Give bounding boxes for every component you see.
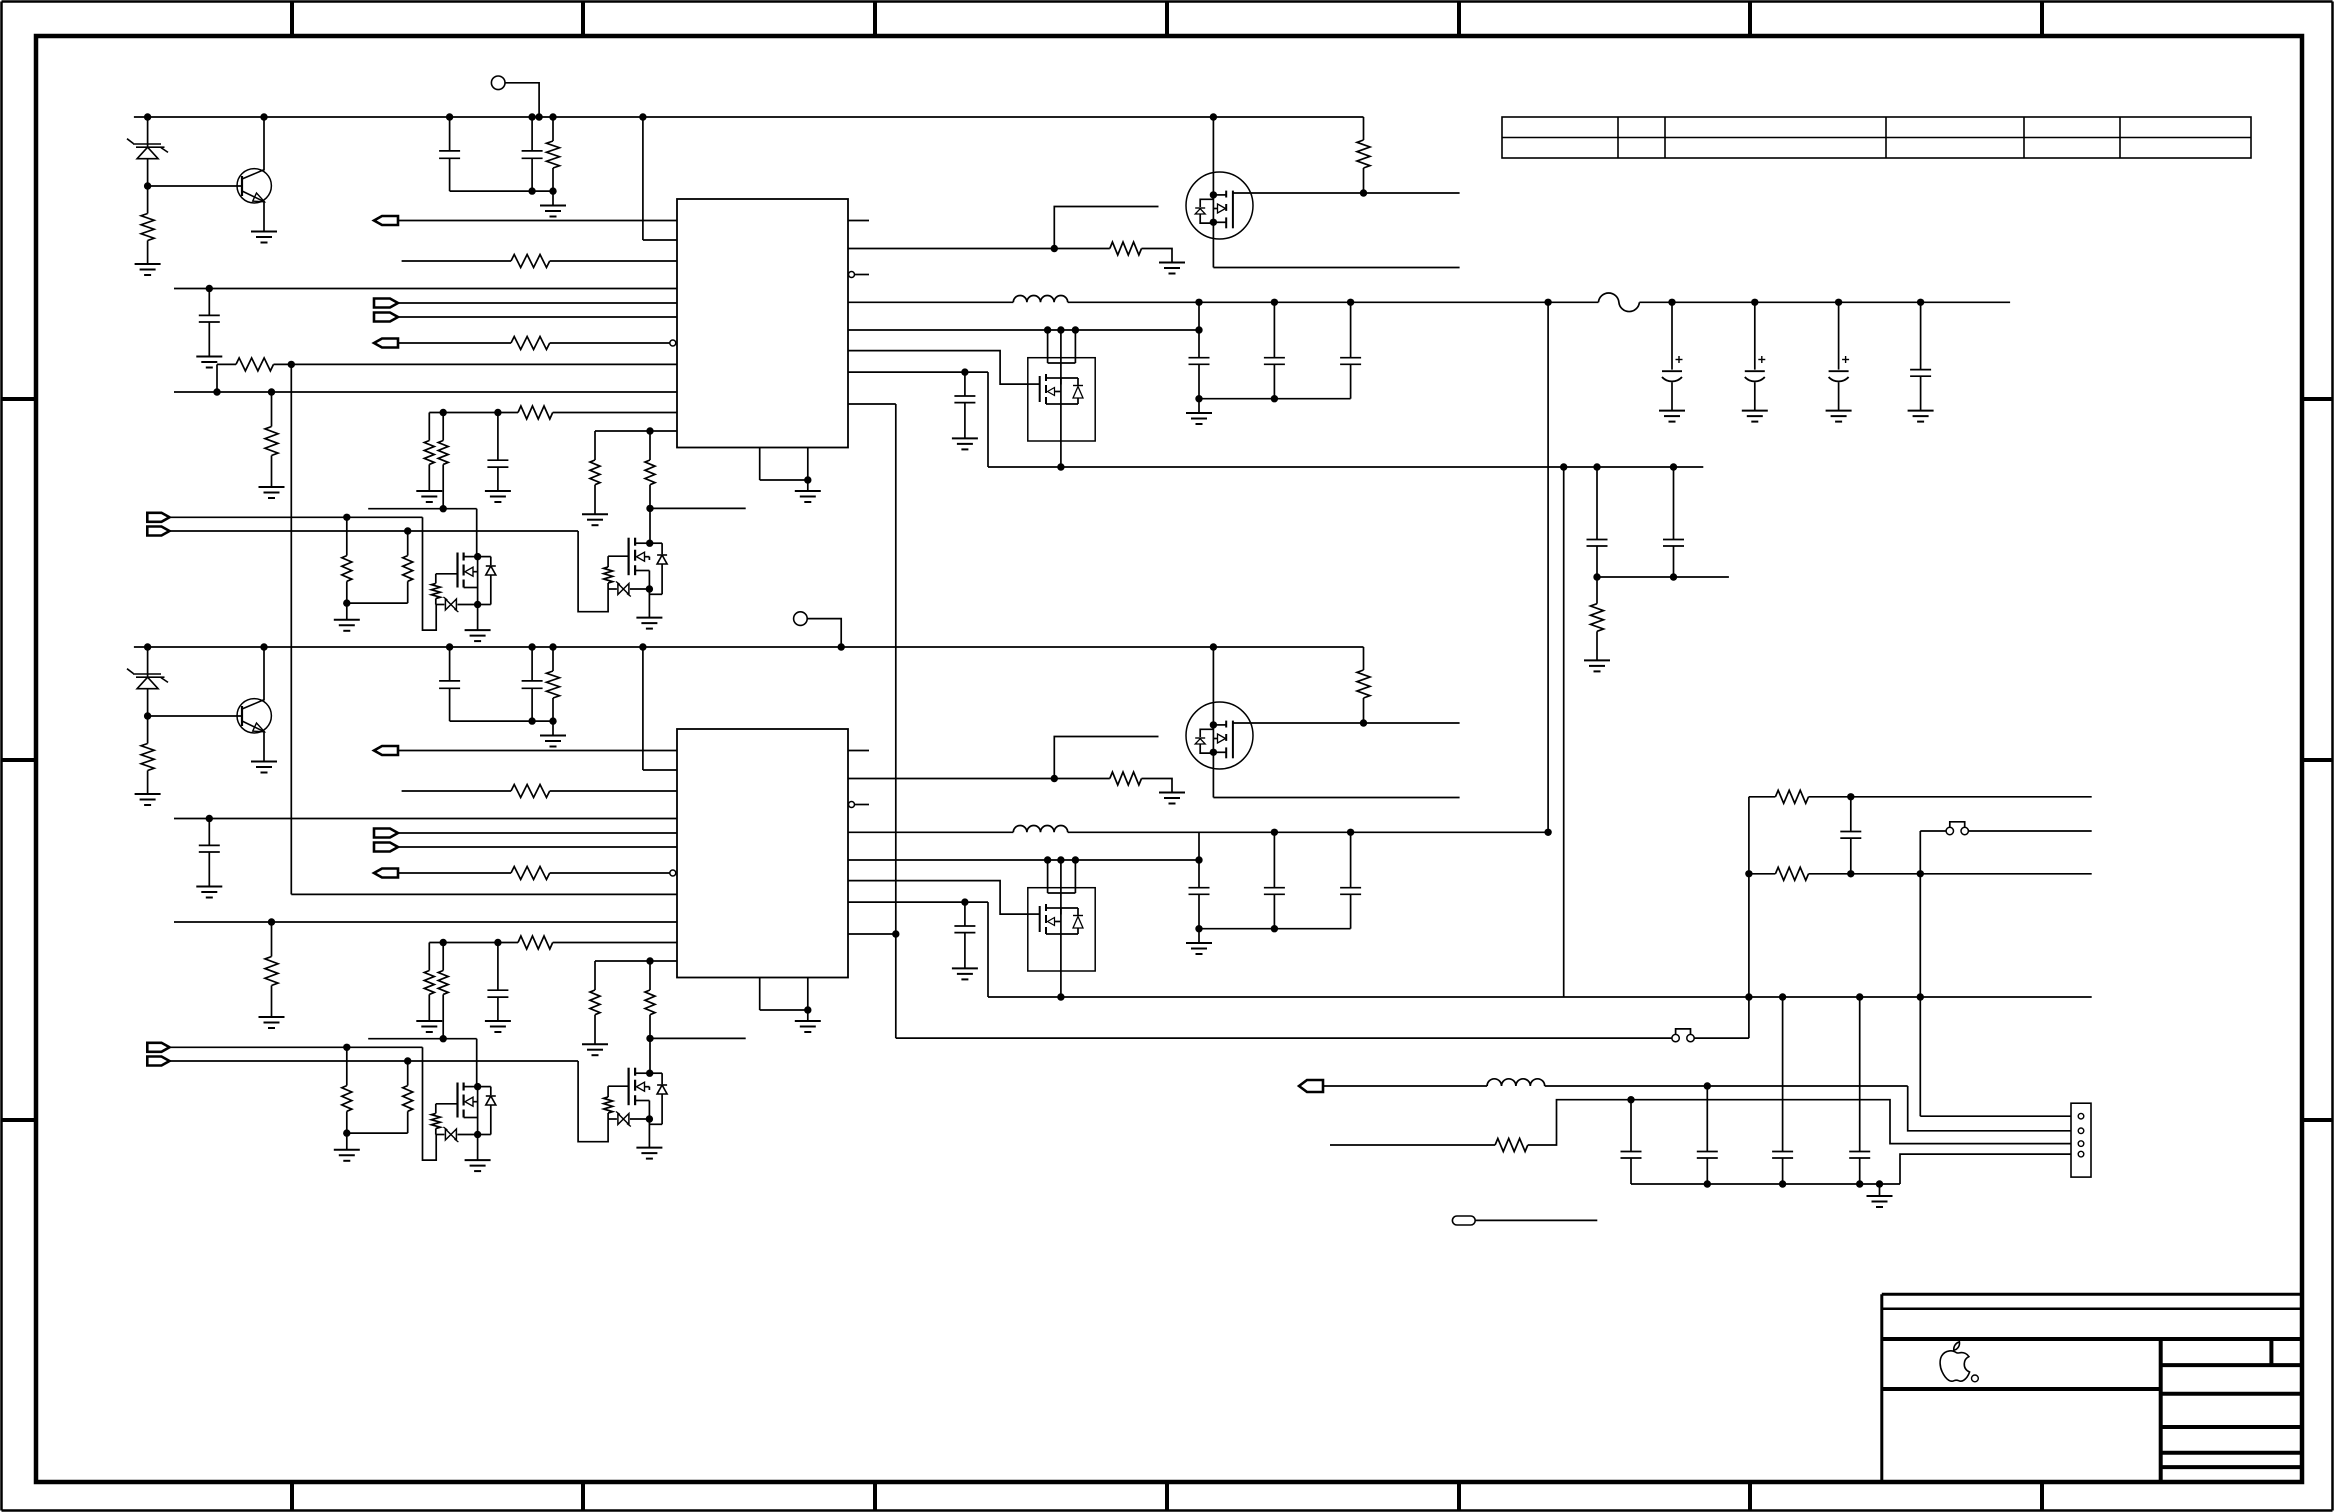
transistor Q15 [1225, 191, 1227, 198]
wire [169, 530, 578, 532]
wire [807, 619, 841, 647]
transistor Q15 [1186, 172, 1253, 239]
terminal [147, 527, 169, 536]
wire [398, 220, 677, 222]
wire [174, 818, 677, 820]
wire [169, 1060, 578, 1062]
capacitor C23 [1838, 302, 1840, 369]
wire [1908, 1086, 2071, 1131]
wire [648, 1101, 650, 1148]
wire [398, 846, 677, 848]
pin bubble [849, 802, 855, 808]
resistor R215 [1110, 772, 1142, 785]
node [528, 113, 535, 120]
node [838, 643, 845, 650]
wire [477, 1087, 479, 1161]
node [288, 361, 295, 368]
border frame [2, 397, 36, 401]
capacitor C21 [449, 647, 451, 681]
resistor R113 [435, 574, 437, 584]
resistor R18 [438, 441, 448, 465]
zener Z22 [608, 1118, 617, 1120]
capacitor C13 [208, 289, 210, 316]
node [1051, 245, 1058, 252]
wire [174, 921, 677, 923]
border frame [290, 2, 294, 36]
wire [147, 117, 149, 147]
node [646, 1115, 653, 1122]
node [1195, 925, 1202, 932]
wire [169, 516, 422, 518]
wire [1749, 873, 1776, 875]
wire [1142, 779, 1173, 793]
terminal [374, 313, 398, 322]
ground [196, 886, 222, 888]
resistor R29 [594, 961, 596, 990]
wire [848, 831, 1013, 833]
wire [442, 943, 444, 971]
wire [550, 260, 677, 262]
connector pin [2078, 1151, 2084, 1157]
inductor L2 [1013, 825, 1067, 832]
wire [855, 274, 870, 276]
terminal [374, 216, 398, 225]
node [804, 1006, 811, 1013]
wire [1749, 796, 1776, 798]
node [961, 898, 968, 905]
wire [134, 116, 1364, 118]
connector pin [2078, 1113, 2084, 1119]
node [1360, 189, 1367, 196]
node [1210, 113, 1217, 120]
wire [1350, 364, 1352, 398]
wire [807, 1010, 809, 1021]
capacitor C24 [497, 943, 499, 991]
resistor R118 [518, 406, 553, 419]
node [144, 113, 151, 120]
wire [505, 83, 539, 117]
wire [642, 117, 644, 240]
transistor Q23 [608, 1085, 629, 1087]
border frame [2, 0, 2333, 3]
wire [478, 556, 491, 558]
resistor R203 [1495, 1139, 1528, 1152]
node [1195, 299, 1202, 306]
node [343, 1044, 350, 1051]
node [1044, 326, 1051, 333]
pin bubble [670, 340, 676, 346]
wire [848, 220, 869, 222]
resistor R114 [607, 556, 609, 567]
wire [398, 750, 677, 752]
capacitor C20 [1673, 467, 1675, 540]
node [646, 1070, 653, 1077]
capacitor C11 [449, 117, 451, 151]
wire [169, 1046, 422, 1048]
ground [952, 437, 978, 439]
wire [988, 466, 1703, 468]
resistor R213 [435, 1104, 437, 1114]
wire [650, 1072, 662, 1074]
wire [1213, 797, 1459, 799]
resistor R21 [147, 716, 149, 744]
wire [1563, 467, 1565, 997]
wire [1213, 267, 1459, 269]
wire [263, 117, 265, 171]
wire [1142, 249, 1173, 263]
resistor R110 [649, 431, 651, 460]
resistor R111 [346, 517, 348, 555]
zener diode D11 [133, 143, 161, 145]
capacitor C28 [964, 902, 966, 926]
capacitor C22 [531, 647, 533, 681]
wire [398, 832, 677, 834]
terminal [374, 746, 398, 755]
wire [1060, 441, 1062, 467]
node [260, 643, 267, 650]
node [646, 427, 653, 434]
wire [759, 448, 761, 481]
node [268, 388, 275, 395]
resistor R112 [407, 531, 409, 556]
node [1704, 1180, 1711, 1187]
revision table [1502, 117, 2251, 158]
ground [251, 231, 277, 233]
node [404, 1057, 411, 1064]
node [1057, 993, 1064, 1000]
diode D13 [657, 554, 667, 556]
capacitor C21 [1671, 302, 1673, 369]
wire [368, 508, 477, 510]
node [961, 368, 968, 375]
resistor R22 [552, 647, 554, 671]
node [343, 1129, 350, 1136]
diode D22 [486, 1095, 496, 1097]
wire [550, 872, 670, 874]
wire [1475, 1219, 1597, 1221]
node [646, 505, 653, 512]
node [1057, 463, 1064, 470]
ground [251, 761, 277, 763]
ground [485, 490, 511, 492]
wire [988, 996, 2092, 998]
wire [661, 564, 663, 594]
ground [1159, 792, 1185, 794]
wire [1919, 831, 1921, 874]
node [1271, 829, 1278, 836]
node [343, 514, 350, 521]
wire [402, 260, 511, 262]
transistor Q14 [1028, 383, 1040, 385]
resistor R16 [271, 392, 273, 427]
terminal [794, 612, 808, 626]
node [804, 476, 811, 483]
node [1360, 719, 1367, 726]
node [260, 113, 267, 120]
ground [465, 1159, 491, 1161]
capacitor C18 [964, 372, 966, 396]
wire [578, 531, 608, 612]
wire [1068, 831, 1548, 833]
capacitor C24 [1920, 302, 1922, 369]
wire [1748, 797, 1750, 1038]
node [1779, 993, 1786, 1000]
node [213, 388, 220, 395]
wire [848, 859, 1199, 861]
inductor L3 [1487, 1079, 1545, 1086]
wire [346, 1133, 348, 1150]
wire [450, 720, 553, 722]
transistor Q11 [237, 169, 271, 203]
terminal [147, 1057, 169, 1066]
wire [1054, 207, 1158, 249]
wire [896, 1037, 1672, 1039]
resistor R19 [594, 431, 596, 460]
wire [263, 732, 265, 762]
wire [423, 1047, 437, 1160]
capacitor C22 [1754, 302, 1756, 369]
transistor Q24 [1028, 913, 1040, 915]
resistor R15 [236, 358, 274, 371]
node [646, 585, 653, 592]
wire [1054, 737, 1158, 779]
transistor Q21 [237, 699, 271, 733]
resistor R117 [1596, 577, 1598, 604]
wire [1047, 860, 1049, 893]
resistor R214 [607, 1086, 609, 1097]
wire [1879, 1184, 1881, 1196]
terminal [491, 76, 505, 90]
node [1271, 925, 1278, 932]
wire [402, 790, 511, 792]
wire [855, 804, 870, 806]
terminal [1452, 1216, 1475, 1225]
wire [490, 575, 492, 605]
resistor R11 [147, 186, 149, 214]
wire [848, 933, 896, 935]
wire [550, 342, 670, 344]
capacitor C27 [1273, 832, 1275, 887]
resistor R17 [424, 441, 434, 465]
capacitor C12 [531, 117, 533, 151]
resistor R24 [511, 867, 550, 880]
wire [347, 602, 408, 604]
node [528, 717, 535, 724]
wire [650, 542, 662, 544]
ground [334, 1149, 360, 1151]
ground [416, 1020, 442, 1022]
terminal [374, 843, 398, 852]
wire [895, 404, 897, 1038]
wire [217, 363, 236, 365]
ground [259, 1016, 285, 1018]
wire [642, 647, 644, 770]
wire [595, 430, 677, 432]
node [639, 643, 646, 650]
capacitor C15 [1189, 357, 1210, 359]
resistor R26 [271, 922, 273, 957]
terminal [374, 299, 398, 308]
node [646, 957, 653, 964]
capacitor C212 [1706, 1086, 1708, 1152]
wire [552, 191, 554, 205]
ground [795, 1020, 821, 1022]
wire [1350, 894, 1352, 928]
node [268, 918, 275, 925]
wire [848, 371, 988, 373]
wire [457, 1134, 477, 1136]
node [474, 601, 481, 608]
node [528, 643, 535, 650]
wire [428, 994, 430, 1021]
resistor R202 [1775, 867, 1808, 880]
node [528, 187, 535, 194]
wire [478, 1086, 491, 1088]
capacitor C23 [208, 819, 210, 846]
IC U2 [677, 729, 848, 978]
wire [368, 1038, 477, 1040]
wire [648, 571, 650, 618]
wire [1198, 929, 1200, 943]
wire [848, 750, 869, 752]
wire [398, 342, 511, 344]
wire [1919, 874, 1921, 1116]
wire [148, 715, 242, 717]
ground [334, 619, 360, 621]
terminal [374, 339, 398, 348]
wire [987, 372, 989, 467]
wire [649, 1038, 651, 1073]
wire [1212, 117, 1214, 268]
node [144, 643, 151, 650]
ground [582, 1043, 608, 1045]
wire [1330, 1144, 1495, 1146]
wire [848, 329, 1199, 331]
wire [1047, 330, 1049, 363]
wire [1639, 301, 2010, 303]
wire [578, 1061, 608, 1142]
resistor R216 [1363, 647, 1365, 670]
wire [553, 412, 677, 414]
node [1210, 643, 1217, 650]
pin bubble [670, 870, 676, 876]
wire [1968, 830, 2091, 832]
ground [465, 629, 491, 631]
zener Z13 [1200, 199, 1213, 207]
wire [423, 517, 437, 630]
node [1051, 775, 1058, 782]
capacitor C17 [1273, 302, 1275, 357]
wire [650, 1037, 746, 1039]
IC U1 [677, 199, 848, 448]
wire [450, 190, 553, 192]
node [1847, 793, 1854, 800]
node [446, 643, 453, 650]
inductor L1 [1013, 295, 1067, 302]
node [1917, 870, 1924, 877]
ground [1186, 942, 1212, 944]
wire [1595, 576, 1729, 578]
node [1560, 463, 1567, 470]
wire [1545, 1085, 1908, 1087]
terminal [374, 869, 398, 878]
wire [1198, 399, 1200, 413]
wire [1233, 722, 1460, 724]
wire [347, 1132, 408, 1134]
resistor R116 [1363, 117, 1365, 140]
ground [1908, 410, 1934, 412]
capacitor C210 [1850, 797, 1852, 832]
wire [1060, 971, 1062, 997]
wire [1198, 832, 1200, 887]
node [1745, 993, 1752, 1000]
wire [1198, 302, 1200, 357]
wire [216, 364, 218, 392]
ground [485, 1020, 511, 1022]
node [1593, 573, 1600, 580]
connector pin [2078, 1141, 2084, 1147]
diode D23 [657, 1084, 667, 1086]
node [404, 527, 411, 534]
wire [147, 690, 149, 717]
node [1210, 721, 1217, 728]
wire [436, 1134, 445, 1136]
capacitor C213 [1782, 997, 1784, 1152]
transistor Q25 [1186, 702, 1253, 769]
wire [263, 647, 265, 701]
node [446, 113, 453, 120]
diode D12 [486, 565, 496, 567]
wire [848, 301, 1013, 303]
wire [428, 464, 430, 491]
ground [540, 735, 566, 737]
wire [274, 363, 678, 365]
capacitor C25 [1189, 887, 1210, 889]
wire [1528, 1100, 2071, 1145]
node [144, 712, 151, 719]
capacitor C211 [1630, 1100, 1632, 1152]
wire [1900, 1154, 2071, 1184]
wire [147, 647, 149, 677]
wire [1631, 1183, 1900, 1185]
wire [398, 302, 677, 304]
ground [416, 490, 442, 492]
wire [649, 508, 651, 543]
transistor Q25 [1225, 721, 1227, 728]
ground [1826, 410, 1852, 412]
wire [848, 881, 1028, 915]
node [1195, 395, 1202, 402]
ground [1186, 412, 1212, 414]
ground [636, 1147, 662, 1149]
resistor R210 [649, 961, 651, 990]
zener Z21 [445, 1129, 456, 1140]
wire [1199, 928, 1351, 930]
transistor Q13 [608, 555, 629, 557]
wire [477, 557, 479, 631]
ground [135, 263, 161, 265]
transistor Q24 [1028, 888, 1095, 971]
node [1044, 856, 1051, 863]
node [639, 113, 646, 120]
node [549, 113, 556, 120]
wire [1212, 647, 1214, 798]
resistor R27 [424, 971, 434, 995]
switch SW2 [1672, 1034, 1679, 1041]
zener Z12 [608, 588, 617, 590]
resistor R13 [511, 255, 550, 268]
wire [1920, 1115, 2071, 1117]
